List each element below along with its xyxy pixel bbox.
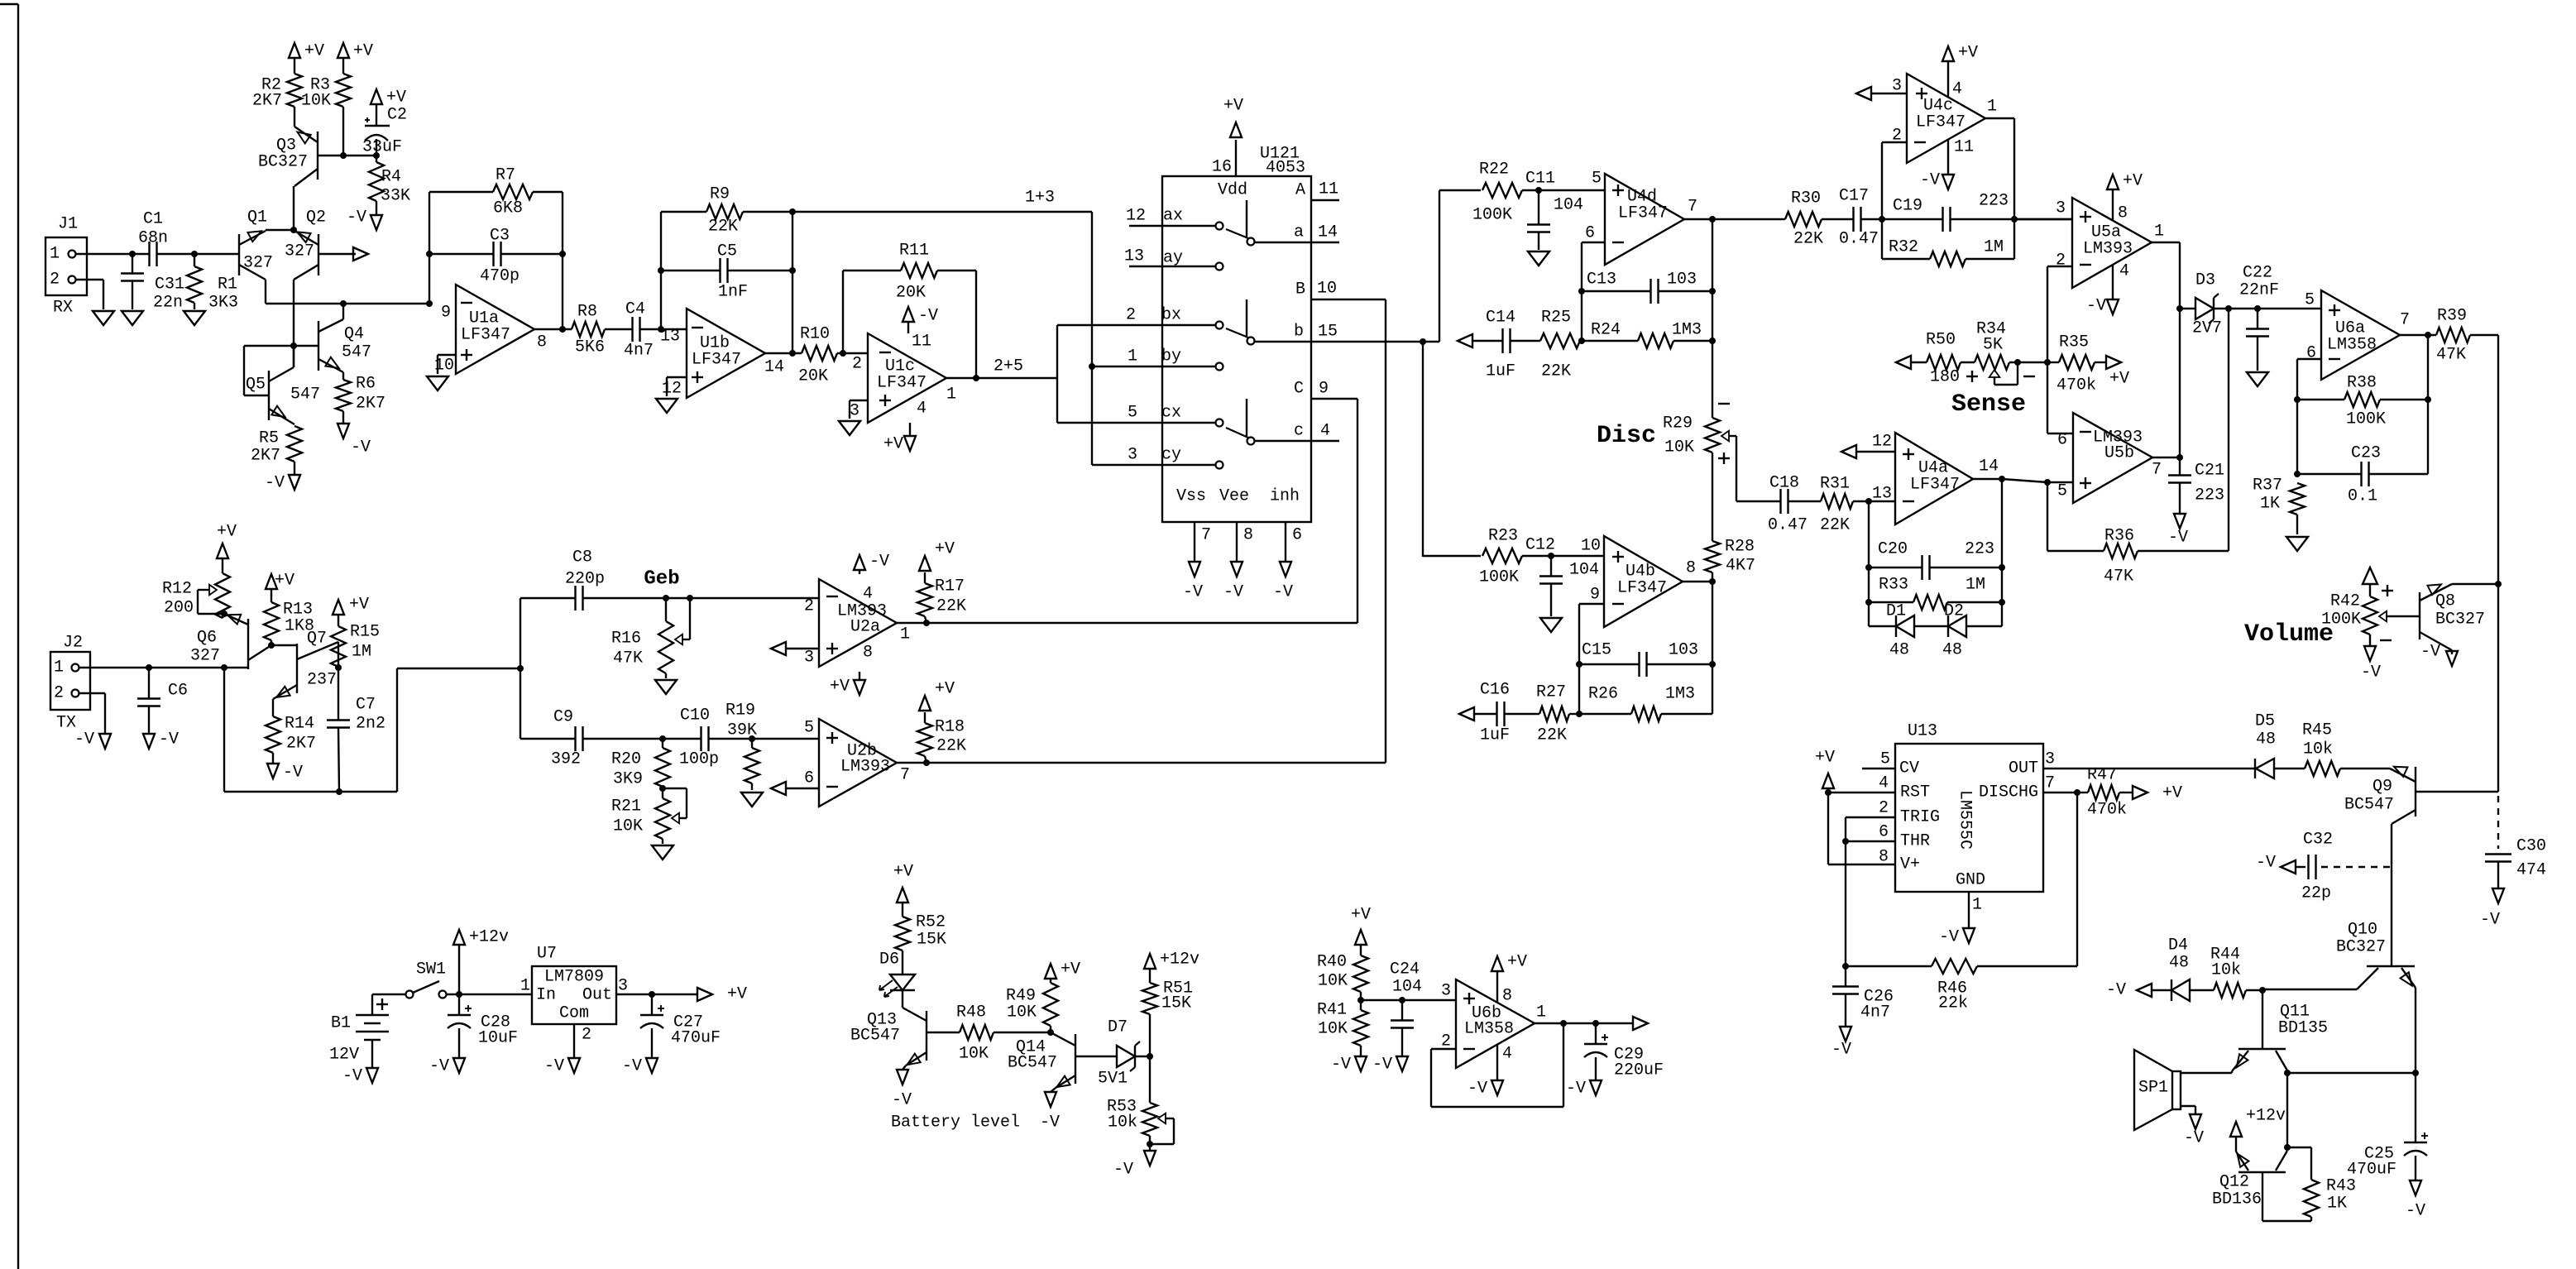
svg-text:15K: 15K <box>917 931 946 950</box>
resistor R52 <box>895 902 946 951</box>
svg-text:-V: -V <box>869 553 889 572</box>
svg-text:-V: -V <box>1113 1161 1133 1180</box>
svg-text:10K: 10K <box>1318 972 1348 991</box>
svg-text:LM358: LM358 <box>1464 1020 1514 1039</box>
wire U2a pin3 arrow <box>771 642 819 655</box>
capacitor C11 <box>1525 170 1583 251</box>
svg-text:R1: R1 <box>218 275 237 295</box>
svg-text:C19: C19 <box>1893 197 1922 216</box>
op-amp U4d <box>1585 170 1697 266</box>
node Q1-Q2 emitters <box>290 227 297 233</box>
svg-text:RST: RST <box>1900 783 1930 802</box>
wire U4c output column <box>1985 118 2014 259</box>
svg-text:R26: R26 <box>1588 685 1618 704</box>
capacitor C26 <box>1832 966 1894 1027</box>
svg-text:-V: -V <box>1831 1041 1851 1060</box>
power -V below U5a <box>2086 262 2129 316</box>
capacitor C6 <box>137 668 188 734</box>
wire R11 right column <box>975 271 977 378</box>
svg-text:14: 14 <box>764 358 784 377</box>
op-amp U6a <box>2305 290 2410 380</box>
wire U4d pin6 column <box>1582 242 1605 341</box>
power -V R53 <box>1113 1151 1156 1180</box>
resistor R44 <box>2210 946 2262 998</box>
svg-text:R40: R40 <box>1317 953 1347 972</box>
node Q4 collector <box>340 300 347 307</box>
resistor R51 <box>1142 968 1193 1056</box>
svg-text:8: 8 <box>863 644 873 663</box>
svg-text:470k: 470k <box>2056 376 2096 395</box>
wire U2a out to C ctrl <box>1357 399 1358 623</box>
transistor Q12 <box>2212 1151 2287 1209</box>
svg-text:+V: +V <box>386 89 406 108</box>
transistor Q3 <box>258 127 318 186</box>
svg-text:LF347: LF347 <box>1910 476 1960 495</box>
svg-text:15K: 15K <box>1161 994 1191 1013</box>
svg-text:LF347: LF347 <box>877 374 926 393</box>
node C19 left <box>1879 216 1885 223</box>
ground under C11 <box>1528 251 1549 266</box>
svg-text:220p: 220p <box>565 570 605 589</box>
svg-text:+V: +V <box>1351 906 1371 925</box>
svg-text:6: 6 <box>804 769 814 788</box>
capacitor C7 <box>327 668 385 792</box>
node U5b out <box>2176 454 2183 461</box>
svg-text:C18: C18 <box>1769 474 1799 493</box>
svg-text:1: 1 <box>1128 347 1137 366</box>
node C7 bottom <box>336 788 342 795</box>
svg-text:+V: +V <box>727 985 747 1004</box>
svg-text:TRIG: TRIG <box>1900 808 1940 827</box>
capacitor C22 <box>2239 264 2279 371</box>
svg-text:D4: D4 <box>2168 936 2188 955</box>
op-amp U4a <box>1872 433 1999 525</box>
svg-text:R5: R5 <box>259 429 279 448</box>
svg-text:1: 1 <box>946 385 956 405</box>
svg-text:100K: 100K <box>2346 410 2386 429</box>
svg-text:12: 12 <box>1126 207 1146 226</box>
wire U4d out <box>1684 218 1785 220</box>
node R40 R41 <box>1357 997 1364 1003</box>
svg-text:20K: 20K <box>798 367 828 386</box>
svg-text:R45: R45 <box>2302 721 2332 740</box>
resistor R26 <box>1579 685 1712 722</box>
svg-text:R25: R25 <box>1541 309 1571 328</box>
svg-text:-V: -V <box>1273 583 1293 602</box>
svg-text:D2: D2 <box>1944 602 1964 621</box>
svg-text:470p: 470p <box>480 267 520 286</box>
capacitor C20 <box>1869 540 2002 581</box>
svg-text:10: 10 <box>1581 537 1601 556</box>
svg-text:1: 1 <box>520 977 530 996</box>
svg-text:+V: +V <box>935 680 955 699</box>
svg-text:3: 3 <box>2056 199 2066 218</box>
svg-text:5: 5 <box>804 719 814 738</box>
resistor R39 <box>2436 307 2498 365</box>
resistor R3 <box>301 58 351 156</box>
svg-text:C16: C16 <box>1480 681 1510 700</box>
svg-text:10uF: 10uF <box>478 1029 518 1048</box>
node C6 tap <box>146 664 152 671</box>
ground under C22 <box>2247 372 2268 386</box>
power -V below U6b <box>1468 1045 1512 1099</box>
svg-text:+12v: +12v <box>469 928 509 947</box>
wire Q11 emitter to SP1 <box>2181 1071 2232 1073</box>
node C23 left <box>2294 471 2301 477</box>
svg-text:D3: D3 <box>2195 271 2215 290</box>
power -V below C30 <box>2480 888 2504 930</box>
wire out to R38 <box>2427 335 2429 400</box>
svg-text:U13: U13 <box>1908 722 1937 741</box>
wire U1b pin12 <box>662 377 687 399</box>
wire audio right column <box>2497 335 2499 792</box>
svg-text:22k: 22k <box>1938 994 1968 1013</box>
wire U5a out <box>2152 242 2180 457</box>
power +V above R13 <box>266 572 294 591</box>
wire C23 left col <box>2296 400 2298 474</box>
transistor Q4 <box>318 319 371 372</box>
capacitor C24 <box>1390 960 1422 1057</box>
node R33 left <box>1865 599 1872 606</box>
svg-text:470k: 470k <box>2087 801 2127 820</box>
svg-text:2K7: 2K7 <box>356 395 385 414</box>
wire Geb column <box>520 598 521 739</box>
svg-text:Disc: Disc <box>1597 422 1656 450</box>
svg-text:ax: ax <box>1163 207 1183 226</box>
capacitor C32 <box>2256 831 2390 903</box>
node C3 right <box>559 251 566 257</box>
node R13 Q7 base <box>268 642 275 649</box>
svg-text:12: 12 <box>1872 433 1892 452</box>
svg-text:+V: +V <box>349 596 369 615</box>
svg-text:-V: -V <box>1040 1113 1060 1133</box>
resistor R45 <box>2302 721 2390 777</box>
wire U6b feedback loop <box>1431 1023 1563 1107</box>
svg-text:103: 103 <box>1667 271 1697 290</box>
IC U7 LM7809 <box>520 945 628 1025</box>
transistor Q13 <box>850 1008 960 1065</box>
pin 4 RST <box>1828 774 1895 793</box>
wire Q4 base row <box>294 345 318 347</box>
wire wiper to C18 <box>1736 500 1780 502</box>
op-amp U2a <box>804 579 910 668</box>
diode D3 zener <box>2180 271 2229 338</box>
svg-text:547: 547 <box>290 385 320 405</box>
svg-text:+V: +V <box>304 42 324 61</box>
wire U5a pin2 column <box>2047 266 2073 433</box>
wire Q1 collector down <box>265 280 266 304</box>
IC U121 4053 box <box>1162 145 1311 523</box>
power -V below C27 <box>622 1057 658 1076</box>
resistor R35 <box>2047 333 2106 395</box>
wire C4 to U1b <box>640 328 687 330</box>
node C25 top <box>2412 1070 2419 1076</box>
svg-text:GND: GND <box>1956 871 1985 890</box>
power -V Q13 <box>892 1070 912 1110</box>
node C2 R4 <box>373 152 380 159</box>
svg-text:a: a <box>1294 223 1304 242</box>
svg-text:U7: U7 <box>537 945 557 964</box>
svg-text:Q4: Q4 <box>344 325 364 344</box>
svg-text:5: 5 <box>2057 482 2067 501</box>
svg-text:22K: 22K <box>1793 230 1823 249</box>
wire U4b pin9 column <box>1579 604 1604 714</box>
power +V above R49 <box>1045 960 1080 979</box>
diode D4 <box>2152 936 2214 1002</box>
svg-text:104: 104 <box>1554 196 1583 215</box>
svg-text:B1: B1 <box>331 1014 351 1033</box>
node C27 tap <box>649 991 655 998</box>
wire base column <box>293 346 294 367</box>
svg-text:-V: -V <box>2480 911 2500 930</box>
svg-text:2V7: 2V7 <box>2192 319 2222 338</box>
wire Q2 collector column <box>293 280 294 367</box>
svg-text:100K: 100K <box>1472 206 1512 225</box>
svg-text:C6: C6 <box>168 682 188 701</box>
switch A <box>1226 180 1339 246</box>
svg-text:4n7: 4n7 <box>1860 1003 1890 1022</box>
node R38 right <box>2425 396 2431 403</box>
svg-text:11: 11 <box>1319 180 1338 199</box>
resistor R13 <box>264 590 314 645</box>
wire b common column <box>1423 190 1439 557</box>
pin 1 by circle <box>1128 347 1223 371</box>
svg-text:5K: 5K <box>1983 336 2003 355</box>
wire C23 right col <box>2427 400 2429 474</box>
svg-text:15: 15 <box>1318 323 1338 342</box>
pin 7 Vss -V <box>1183 522 1211 602</box>
svg-text:R28: R28 <box>1725 538 1755 557</box>
svg-text:10K: 10K <box>959 1045 989 1064</box>
resistor R28 <box>1705 538 1755 582</box>
pin 3 cy circle <box>1128 446 1223 469</box>
potentiometer R21 <box>611 788 687 844</box>
power -V below C26 <box>1831 1027 1851 1060</box>
svg-text:223: 223 <box>1965 540 1994 559</box>
transistor Q5 <box>246 367 320 420</box>
svg-text:8: 8 <box>537 333 547 352</box>
wire emitters to Q3 <box>293 186 294 230</box>
svg-text:22K: 22K <box>1537 726 1567 745</box>
svg-text:-V: -V <box>1566 1080 1586 1099</box>
node C19 right <box>2011 216 2018 223</box>
svg-text:47K: 47K <box>2104 567 2133 587</box>
power -V Q14 <box>1040 1092 1060 1133</box>
svg-text:Volume: Volume <box>2244 620 2334 649</box>
wire R36 column <box>2228 309 2229 551</box>
svg-text:4: 4 <box>917 400 926 419</box>
wire Q11 base column <box>2262 990 2263 1049</box>
svg-text:8: 8 <box>1879 848 1889 867</box>
svg-text:5: 5 <box>1592 170 1602 189</box>
svg-text:+12v: +12v <box>2246 1107 2286 1126</box>
wire Q3 base row <box>318 155 376 156</box>
svg-text:4: 4 <box>1320 422 1330 441</box>
svg-text:C24: C24 <box>1390 960 1420 979</box>
node U1c out <box>973 375 979 381</box>
svg-text:3: 3 <box>618 977 628 996</box>
svg-text:C8: C8 <box>572 548 592 567</box>
node U1b input <box>658 326 664 333</box>
switch SW1 <box>406 960 447 998</box>
node R33 right <box>1999 599 2005 606</box>
transistor Q10 <box>2336 921 2416 990</box>
svg-text:Vss: Vss <box>1176 487 1206 506</box>
node R3 base <box>340 152 347 159</box>
svg-text:J1: J1 <box>58 215 78 234</box>
wire C19 node to U5a <box>2014 218 2072 220</box>
capacitor C18 <box>1768 474 1808 535</box>
capacitor C19 <box>1882 192 2072 232</box>
svg-text:R17: R17 <box>935 577 965 596</box>
op-amp U2b <box>804 719 910 807</box>
wire U5b out <box>2152 457 2180 458</box>
op-amp U6b <box>1441 979 1546 1068</box>
ground U1a pin10 <box>427 376 448 390</box>
svg-text:C22: C22 <box>2243 264 2272 283</box>
wire R8 to C4 <box>605 328 633 330</box>
wire DISCHG to R46 <box>2076 793 2078 966</box>
resistor R10 <box>798 325 837 386</box>
wire Q7 collector <box>338 642 339 668</box>
node R24 right <box>1709 338 1716 344</box>
svg-text:7: 7 <box>2152 461 2162 480</box>
svg-text:Q6: Q6 <box>197 629 217 648</box>
op-amp U4c <box>1892 74 1997 163</box>
wire U4c pin3 arrow <box>1856 87 1907 100</box>
node Q12 collector <box>2284 1144 2291 1151</box>
svg-text:R47: R47 <box>2087 766 2117 785</box>
svg-text:1M: 1M <box>1966 576 1985 595</box>
power -V below R14 <box>267 764 303 783</box>
wire U2b out to B ctrl <box>1385 299 1386 763</box>
svg-text:R52: R52 <box>916 913 946 932</box>
svg-text:200: 200 <box>164 599 194 618</box>
ground U1c pin3 <box>839 421 860 435</box>
ground under R21 <box>652 845 673 860</box>
svg-text:C: C <box>1294 380 1304 399</box>
node R26 R27 <box>1576 711 1582 717</box>
svg-text:R39: R39 <box>2437 307 2467 326</box>
svg-text:C31: C31 <box>155 275 184 295</box>
svg-text:C1: C1 <box>143 210 163 229</box>
power +V above U6b <box>1491 953 1527 1006</box>
output arrow U6b <box>1633 1017 1648 1030</box>
svg-text:BD136: BD136 <box>2212 1190 2262 1209</box>
svg-text:5V1: 5V1 <box>1098 1070 1128 1089</box>
svg-text:cy: cy <box>1161 446 1181 465</box>
resistor R8 <box>572 303 605 357</box>
svg-text:10k: 10k <box>2211 961 2241 980</box>
node Q4 Q5 base <box>290 342 297 349</box>
svg-text:+V: +V <box>1223 97 1243 116</box>
wire U1b feedback column <box>660 212 662 329</box>
resistor R19 <box>725 702 759 791</box>
svg-text:BC547: BC547 <box>2344 796 2394 815</box>
ground under R1 <box>184 311 205 325</box>
svg-text:10k: 10k <box>1108 1113 1137 1133</box>
svg-text:1M3: 1M3 <box>1672 321 1702 340</box>
svg-text:+V: +V <box>2123 172 2143 191</box>
power +V above R40 <box>1351 906 1371 946</box>
svg-text:D7: D7 <box>1108 1018 1128 1037</box>
resistor R15 <box>331 615 380 667</box>
svg-text:1M3: 1M3 <box>1665 685 1695 704</box>
svg-text:20K: 20K <box>896 284 926 303</box>
svg-text:237: 237 <box>307 671 337 690</box>
wire disc col bottom <box>1712 582 1713 714</box>
svg-text:6K8: 6K8 <box>493 199 523 218</box>
capacitor C9 <box>520 708 701 769</box>
svg-text:13: 13 <box>1872 485 1892 504</box>
svg-text:-V: -V <box>918 307 938 326</box>
svg-text:R10: R10 <box>800 325 830 344</box>
ground U1b pin12 <box>656 399 678 413</box>
svg-text:C13: C13 <box>1587 271 1616 290</box>
wire Q8 collector -V <box>2451 650 2453 654</box>
resistor R24 <box>1582 321 1712 349</box>
svg-text:8: 8 <box>1502 987 1512 1006</box>
power -V Q8 <box>2420 643 2458 667</box>
capacitor C4 <box>624 300 654 361</box>
node D3 tap <box>2176 305 2183 312</box>
svg-text:7: 7 <box>900 766 910 785</box>
svg-text:100K: 100K <box>1479 568 1519 587</box>
power -V below R6 <box>338 424 371 457</box>
potentiometer R42 <box>2244 567 2420 649</box>
power -V below R42 <box>2361 634 2381 682</box>
svg-text:7: 7 <box>2400 311 2410 330</box>
power -V below C6 <box>143 730 179 749</box>
wire Q5 base loop <box>244 346 294 395</box>
transistor Q6 <box>190 614 271 669</box>
transistor Q9 <box>2344 767 2498 824</box>
node C29 tap <box>1592 1020 1599 1027</box>
diode D1 <box>1869 602 1914 660</box>
svg-text:Out: Out <box>582 986 612 1005</box>
power -V below R4 <box>347 208 382 231</box>
svg-text:+V: +V <box>893 863 913 882</box>
node U4b out <box>1709 578 1716 585</box>
svg-text:R15: R15 <box>350 623 380 642</box>
svg-text:22p: 22p <box>2301 884 2331 903</box>
node R19 top <box>749 735 755 742</box>
svg-text:In: In <box>536 986 556 1005</box>
wire 1+3 column <box>1091 212 1093 465</box>
wire 1+3 row <box>792 189 1092 213</box>
svg-text:+V: +V <box>1958 44 1978 63</box>
svg-text:12V: 12V <box>329 1046 359 1065</box>
capacitor C1 <box>138 210 168 267</box>
power -V below C24 <box>1372 1056 1408 1075</box>
svg-text:THR: THR <box>1900 832 1930 851</box>
wire feedback right column <box>562 192 563 329</box>
resistor R27 <box>1505 683 1579 745</box>
node C1-R1 <box>191 251 198 257</box>
capacitor C25 electrolytic <box>2347 1073 2428 1180</box>
capacitor C15 <box>1579 641 1712 678</box>
svg-text:-V: -V <box>1468 1080 1487 1099</box>
node U2a out <box>923 620 930 626</box>
node R12 Q6 emitter <box>221 611 227 617</box>
svg-text:-V: -V <box>544 1057 564 1076</box>
power -V J2 pin2 <box>74 730 111 749</box>
wire U7 out <box>616 994 697 995</box>
wire U1a pin10 <box>434 355 456 376</box>
svg-text:103: 103 <box>1669 641 1698 660</box>
svg-text:48: 48 <box>2256 730 2276 749</box>
ground under C12 <box>1540 618 1562 632</box>
